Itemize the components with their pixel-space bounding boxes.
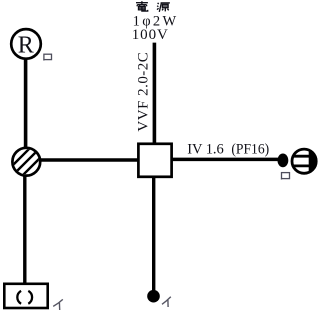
wire joint box to ceiling rosette (vertical) [23,176,26,284]
wire R to joint box (vertical) [24,59,28,148]
lamp receptacle R [11,29,41,59]
kanji 源 [157,3,170,12]
svg-text:VVF 2.0-2C: VVF 2.0-2C [136,52,152,131]
label イ (at switch) [162,297,171,307]
rosette arcs () [17,291,32,304]
wire outlet box to switch ロ (horizontal) [172,158,281,162]
svg-text:IV 1.6: IV 1.6 [187,141,224,157]
switch ロ (filled dot) [278,154,289,168]
wire joint box to outlet box (horizontal) [40,158,140,162]
svg-text:100V: 100V [132,27,168,43]
wire outlet box to switch イ (vertical) [152,177,155,293]
receptacle outlet symbol [291,147,319,175]
label ロ (at switch) [282,173,290,180]
node 電源 label [136,1,170,12]
label ロ (at R) [44,54,52,60]
joint box (hatched circle) [6,132,46,192]
svg-text:R: R [18,32,34,58]
outlet box (square) [138,144,171,177]
wire power to junction box (vertical) [153,43,157,144]
ceiling rosette (box) [4,284,47,308]
svg-text:(PF16): (PF16) [231,141,269,157]
kanji 電 [136,1,148,11]
switch イ (filled dot) [147,290,160,303]
label イ (at rosette) [53,299,63,310]
